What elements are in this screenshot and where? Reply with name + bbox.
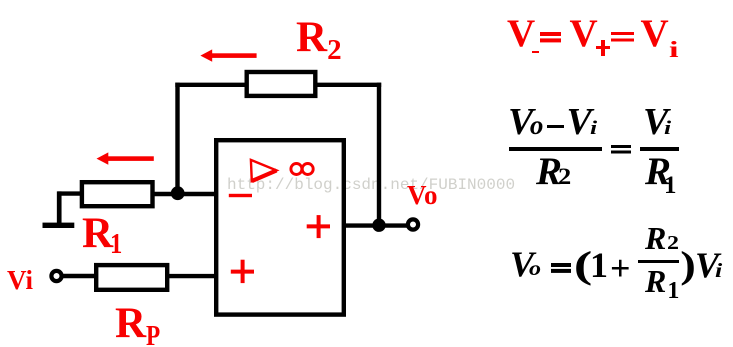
wire R2 right lead (top horizontal)	[316, 83, 382, 87]
ground	[43, 223, 75, 228]
node A junction (inverting input node)	[171, 186, 185, 200]
equation Vo = (1 + R2/R1)Vi	[0, 0, 1, 1]
wire RP to op-amp non-inverting input	[167, 274, 216, 278]
current arrow I1 (pointing left, above R1)	[97, 152, 154, 164]
op-amp non-inverting input marker (plus)	[231, 260, 254, 283]
equation (Vo - Vi)/R2 = Vi/R1	[0, 0, 1, 1]
resistor RP	[96, 265, 167, 290]
watermark http://blog.csdn.net/FUBIN0000	[227, 177, 515, 193]
wire op-amp output to terminal Vo	[344, 223, 407, 227]
resistor R1	[82, 182, 153, 206]
wire R1 left lead	[58, 191, 83, 195]
wire Vi terminal to RP	[62, 274, 97, 278]
wire right vertical from top loop down to node B	[377, 83, 381, 226]
label R1	[82, 212, 125, 259]
equation V- = V+ = Vi	[0, 0, 1, 1]
terminal Vi (input terminal)	[51, 271, 61, 281]
label Vo	[407, 182, 438, 209]
current arrow I2 (feedback current, pointing left)	[200, 49, 256, 61]
label RP	[115, 302, 164, 347]
resistor R2	[247, 72, 316, 96]
label R2	[296, 16, 342, 65]
wire R1 right lead to op-amp inverting input	[153, 192, 217, 196]
wire ground drop	[57, 191, 62, 224]
label Vi	[7, 267, 33, 294]
op-amp U1 body	[216, 140, 344, 314]
op-amp inverting input marker (minus)	[229, 194, 252, 197]
wire R2 left lead (top horizontal)	[175, 83, 248, 87]
op-amp triangle symbol	[251, 160, 277, 181]
op-amp output polarity marker (plus)	[307, 215, 330, 238]
wire left vertical from top loop down to node A	[175, 83, 179, 192]
infinity gain label	[291, 164, 313, 175]
terminal Vo (output terminal)	[408, 219, 418, 229]
node B junction (output node)	[372, 219, 385, 232]
